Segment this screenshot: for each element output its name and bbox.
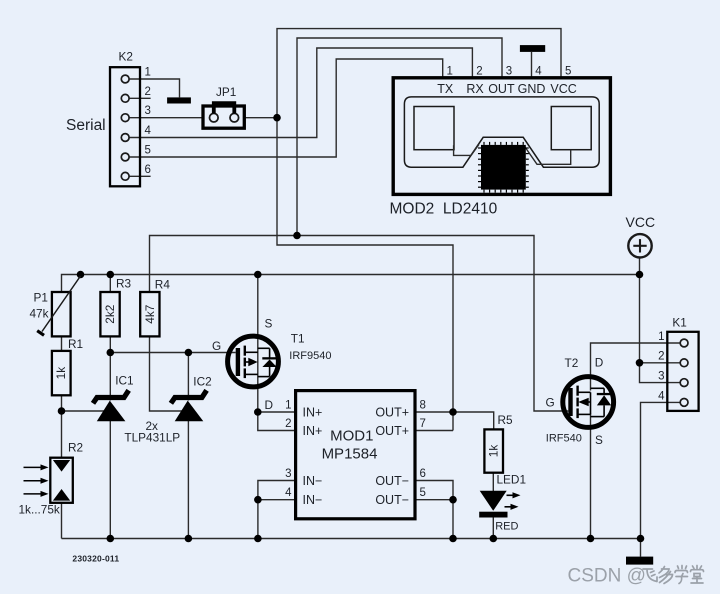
node MOD1 pin5 pin6 xyxy=(449,496,457,504)
svg-text:5: 5 xyxy=(145,145,151,157)
node K1 pin4 rail xyxy=(637,535,645,543)
svg-text:R4: R4 xyxy=(155,277,171,291)
wire MOD1 pin4 xyxy=(258,499,296,501)
wire LED1 to ground rail xyxy=(492,518,494,539)
wire VCC symbol drop to K1 xyxy=(640,258,681,383)
svg-text:IN+: IN+ xyxy=(303,424,323,438)
wire VCC rail xyxy=(62,275,641,293)
wire T1 drain to MOD1 pin2 xyxy=(258,412,296,431)
wire T1 source-drain vertical xyxy=(257,275,259,413)
wire MOD1 pin3 pin4 to ground xyxy=(258,481,296,539)
wire gate net T1 xyxy=(110,336,235,352)
wire IC2 cathode xyxy=(187,353,189,401)
potentiometer P1 xyxy=(30,276,81,336)
VCC symbol xyxy=(626,214,656,258)
wire MOD2 TX to K2 pin5 xyxy=(129,59,443,157)
svg-text:TLP431LP: TLP431LP xyxy=(124,431,180,445)
node P1 wiper rail xyxy=(77,271,85,279)
wire MOD2 RX to K2 pin4 xyxy=(129,48,472,138)
svg-text:MP1584: MP1584 xyxy=(322,446,378,463)
svg-text:4: 4 xyxy=(535,66,542,78)
node MOD1 IN- rail xyxy=(254,535,262,543)
node T2 source rail xyxy=(587,535,595,543)
svg-text:3: 3 xyxy=(658,371,664,383)
svg-text:1k: 1k xyxy=(487,445,501,458)
svg-text:6: 6 xyxy=(145,164,151,176)
svg-text:4: 4 xyxy=(145,125,152,137)
svg-text:CSDN @: CSDN @ xyxy=(568,566,646,587)
svg-text:K2: K2 xyxy=(119,50,133,64)
node R1 IC1 R2 xyxy=(58,407,66,415)
svg-text:S: S xyxy=(265,316,273,330)
svg-text:IN−: IN− xyxy=(303,493,323,507)
svg-text:RX: RX xyxy=(466,82,484,96)
svg-text:R3: R3 xyxy=(116,277,132,291)
svg-text:R5: R5 xyxy=(498,413,514,427)
wire MOD2 OUT top xyxy=(297,38,502,236)
wire MOD2 VCC top xyxy=(277,29,561,431)
wire MOD1 pin8 to R5 xyxy=(415,412,494,429)
ground bottom right xyxy=(626,557,653,565)
svg-text:TX: TX xyxy=(437,82,454,96)
wire OUT net horizontal xyxy=(150,236,569,412)
svg-text:2k2: 2k2 xyxy=(103,305,117,324)
svg-text:2: 2 xyxy=(145,86,151,98)
svg-text:VCC: VCC xyxy=(626,214,656,230)
svg-text:1: 1 xyxy=(447,66,453,78)
svg-text:D: D xyxy=(265,398,274,412)
wire K2 pin6 stub xyxy=(129,175,151,177)
svg-text:4: 4 xyxy=(658,390,665,402)
wire T2 source to ground rail xyxy=(590,414,592,539)
svg-text:OUT+: OUT+ xyxy=(375,424,409,438)
node IC2 anode rail xyxy=(185,535,193,543)
svg-text:4: 4 xyxy=(285,487,292,499)
svg-text:IC2: IC2 xyxy=(193,374,211,388)
node MOD1 OUT- rail xyxy=(449,535,457,543)
wire IC1 anode xyxy=(109,420,111,539)
resistor R4 xyxy=(140,277,170,336)
svg-text:47k: 47k xyxy=(30,307,49,321)
node R3 rail xyxy=(107,271,115,279)
watermark CSDN xyxy=(568,566,704,587)
svg-text:GND: GND xyxy=(518,82,546,96)
svg-text:S: S xyxy=(595,433,603,447)
resistor R3 xyxy=(100,277,131,337)
svg-text:8: 8 xyxy=(420,400,426,412)
label Serial xyxy=(66,117,106,134)
svg-text:T2: T2 xyxy=(565,356,579,370)
wire IC2 anode xyxy=(187,420,189,539)
node R3 IC1 gate xyxy=(107,349,115,357)
transistor T1 IRF9540 xyxy=(212,316,332,412)
wire K1 pin4 to ground xyxy=(641,402,681,556)
svg-text:RED: RED xyxy=(495,521,518,533)
wire P1-R1 xyxy=(61,336,63,351)
svg-text:G: G xyxy=(546,396,555,410)
node OUT net xyxy=(293,232,301,240)
svg-text:G: G xyxy=(212,339,221,353)
svg-text:3: 3 xyxy=(145,105,151,117)
svg-text:4k7: 4k7 xyxy=(143,305,157,324)
svg-text:MOD1: MOD1 xyxy=(330,428,373,445)
svg-text:5: 5 xyxy=(420,487,426,499)
wire K2 pin2 stub xyxy=(129,97,151,99)
resistor R5 xyxy=(484,413,513,473)
svg-text:3: 3 xyxy=(285,468,291,480)
node MOD1 pin8 R5 xyxy=(449,408,457,416)
svg-text:1: 1 xyxy=(145,67,151,79)
svg-text:OUT−: OUT− xyxy=(375,474,409,488)
transistor T2 IRF540 xyxy=(546,356,614,448)
node IC2 cathode gate xyxy=(185,349,193,357)
svg-text:LED1: LED1 xyxy=(497,473,527,487)
svg-text:P1: P1 xyxy=(34,291,48,305)
svg-text:1k: 1k xyxy=(54,367,68,380)
wire K2 pin3 to JP1 xyxy=(129,117,203,119)
node T1 drain MOD1 xyxy=(254,408,262,416)
wire R5 to LED1 xyxy=(492,473,494,491)
node T1 source rail xyxy=(254,271,262,279)
label 2x TLP431LP xyxy=(124,419,180,445)
svg-text:OUT+: OUT+ xyxy=(375,406,409,420)
jumper JP1 xyxy=(203,85,244,128)
module MOD1 MP1584 xyxy=(285,391,426,519)
svg-text:1k...75k: 1k...75k xyxy=(19,502,60,516)
connector K2 xyxy=(110,50,152,187)
svg-text:IRF9540: IRF9540 xyxy=(289,350,331,362)
label 230320-011 xyxy=(72,554,119,564)
shunt regulator IC1 xyxy=(93,374,134,422)
wire R4 bottom to IC2 ref xyxy=(150,336,186,411)
wire R3 top xyxy=(109,275,111,293)
LDR R2 xyxy=(19,440,84,516)
svg-text:OUT−: OUT− xyxy=(375,493,409,507)
svg-text:IN−: IN− xyxy=(303,474,323,488)
wire MOD1 pin5 xyxy=(415,499,453,501)
svg-text:6: 6 xyxy=(420,468,426,480)
resistor R1 xyxy=(52,337,83,395)
ground K2 pin1 xyxy=(167,97,191,103)
svg-text:5: 5 xyxy=(565,66,571,78)
svg-text:T1: T1 xyxy=(291,332,305,346)
svg-text:1: 1 xyxy=(285,400,291,412)
wire T2 drain to K1 pin1 xyxy=(591,343,681,391)
svg-text:3: 3 xyxy=(506,66,512,78)
ground MOD2 xyxy=(520,45,545,52)
svg-text:R1: R1 xyxy=(68,337,83,351)
node junction JP1-VCC xyxy=(273,114,281,122)
node LED1 rail xyxy=(490,535,498,543)
wire IC1 cathode xyxy=(109,353,111,401)
wire MOD2 GND stub xyxy=(531,52,533,78)
svg-text:D: D xyxy=(595,356,604,370)
connector K1 xyxy=(658,316,699,411)
svg-text:2: 2 xyxy=(285,418,291,430)
shunt regulator IC2 xyxy=(171,374,212,421)
LED1 xyxy=(479,473,526,533)
svg-text:K1: K1 xyxy=(672,316,686,330)
wire K2 pin1 to ground xyxy=(129,79,180,97)
wire MOD1 pin6 pin5 to ground xyxy=(415,481,453,539)
svg-text:1: 1 xyxy=(658,331,664,343)
wire R1 bottom to R2 xyxy=(61,395,63,457)
svg-text:OUT: OUT xyxy=(488,82,515,96)
node MOD1 pin4 ground xyxy=(254,496,262,504)
svg-text:Serial: Serial xyxy=(66,117,106,134)
node K1 pin2 VCC xyxy=(636,359,644,367)
svg-text:R2: R2 xyxy=(68,440,83,454)
wire MOD1 pin7 xyxy=(415,430,453,432)
svg-text:230320-011: 230320-011 xyxy=(72,554,119,564)
svg-text:JP1: JP1 xyxy=(216,85,236,99)
svg-text:2: 2 xyxy=(658,351,664,363)
wire ground rail bottom xyxy=(62,538,641,540)
svg-text:2: 2 xyxy=(476,66,482,78)
svg-text:IRF540: IRF540 xyxy=(546,433,582,445)
svg-text:IC1: IC1 xyxy=(115,374,133,388)
svg-text:7: 7 xyxy=(420,418,426,430)
module MOD2 LD2410 xyxy=(390,66,611,218)
wire T1 drain to MOD1 pin1 xyxy=(258,411,296,413)
svg-text:MOD2 LD2410: MOD2 LD2410 xyxy=(390,201,498,218)
svg-text:VCC: VCC xyxy=(550,82,576,96)
node IC1 anode rail xyxy=(107,535,115,543)
wire JP1 to junction xyxy=(244,117,277,119)
wire K1 pin2 xyxy=(640,362,681,364)
svg-text:IN+: IN+ xyxy=(303,406,323,420)
wire R2 bottom xyxy=(61,503,63,539)
wire IC1 ref xyxy=(62,410,108,412)
node VCC rail right xyxy=(636,271,644,279)
